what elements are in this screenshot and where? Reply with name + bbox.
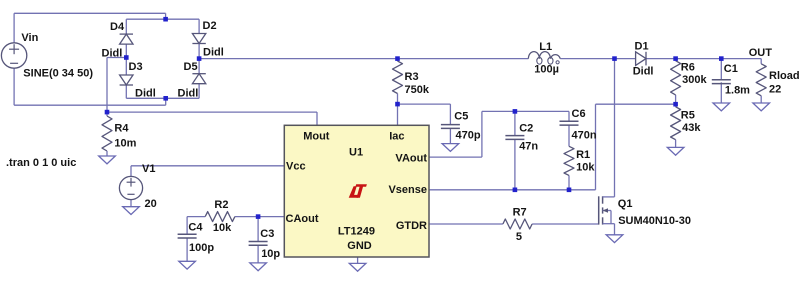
ground Rload bbox=[753, 103, 770, 111]
wire R5 leads bbox=[675, 104, 677, 107]
svg-text:43k: 43k bbox=[682, 122, 701, 134]
svg-text:D3: D3 bbox=[129, 61, 143, 73]
capacitor C6 bbox=[560, 120, 579, 122]
svg-text:C6: C6 bbox=[572, 108, 586, 120]
ground Q1 source bbox=[606, 235, 623, 243]
wire C6-R1 link bbox=[568, 125, 570, 146]
svg-text:D2: D2 bbox=[203, 20, 217, 32]
wire bridge mid-left to node bbox=[107, 57, 126, 59]
svg-text:CAout: CAout bbox=[286, 213, 319, 225]
wire D3 leads bbox=[125, 58, 127, 75]
wire C2 leads bbox=[514, 111, 516, 135]
svg-text:10k: 10k bbox=[576, 162, 595, 174]
svg-text:R3: R3 bbox=[405, 71, 419, 83]
svg-text:C4: C4 bbox=[188, 222, 203, 234]
resistor R1 bbox=[564, 146, 574, 175]
svg-text:Didl: Didl bbox=[102, 48, 123, 60]
voltage source Vin bbox=[1, 43, 26, 68]
svg-text:Mout: Mout bbox=[303, 131, 330, 143]
wire bridge top rail bbox=[126, 18, 199, 20]
capacitor C5 bbox=[441, 124, 460, 126]
ground GND pin bbox=[349, 263, 366, 271]
inductor L1 bbox=[528, 52, 539, 59]
svg-text:10k: 10k bbox=[213, 222, 232, 234]
svg-text:SINE(0 34 50): SINE(0 34 50) bbox=[23, 68, 93, 80]
svg-text:22: 22 bbox=[769, 84, 781, 96]
svg-text:GTDR: GTDR bbox=[396, 220, 427, 232]
wire Vin top to bridge bbox=[13, 13, 15, 43]
wire C3 branch bbox=[257, 217, 259, 242]
ground R5 bbox=[667, 147, 684, 155]
svg-text:R6: R6 bbox=[681, 62, 695, 74]
svg-text:LT1249: LT1249 bbox=[338, 226, 375, 238]
wire R7 to gate bbox=[532, 223, 599, 225]
svg-text:Vcc: Vcc bbox=[286, 161, 306, 173]
svg-text:20: 20 bbox=[145, 198, 157, 210]
wire Rload leads bbox=[760, 59, 762, 64]
wire bridge bottom rail bbox=[126, 97, 199, 99]
svg-text:C2: C2 bbox=[519, 123, 533, 135]
wire R3 bottom to C5 bbox=[397, 94, 399, 105]
svg-text:Rload: Rload bbox=[769, 70, 800, 82]
svg-text:100µ: 100µ bbox=[534, 64, 559, 76]
wire Vsense net bbox=[429, 189, 596, 191]
resistor R3 bbox=[393, 61, 403, 94]
svg-text:R2: R2 bbox=[214, 199, 228, 211]
diode D2 bbox=[192, 43, 205, 45]
wire D1 to OUT rail bbox=[646, 58, 761, 60]
capacitor C3 bbox=[249, 241, 268, 243]
capacitor C4 bbox=[178, 233, 197, 235]
svg-text:Didl: Didl bbox=[633, 66, 654, 78]
resistor R5 bbox=[671, 107, 681, 140]
svg-text:D1: D1 bbox=[635, 41, 649, 53]
wire R3 top lead bbox=[397, 59, 399, 61]
svg-text:C1: C1 bbox=[724, 63, 738, 75]
wire D5 leads bbox=[198, 59, 200, 74]
resistor R2 bbox=[205, 212, 235, 222]
wire rail L1 to D1 bbox=[560, 58, 635, 60]
svg-text:D5: D5 bbox=[184, 61, 198, 73]
wire main rail bbox=[199, 58, 528, 60]
wire R2 left lead bbox=[187, 216, 205, 218]
capacitor C2 bbox=[505, 135, 524, 137]
svg-text:R7: R7 bbox=[513, 207, 527, 219]
svg-text:C3: C3 bbox=[260, 228, 274, 240]
ground C3 bbox=[250, 263, 267, 271]
wire R6 leads bbox=[675, 59, 677, 61]
svg-text:D4: D4 bbox=[110, 21, 125, 33]
transistor Q1 bbox=[598, 196, 600, 224]
capacitor C1 bbox=[712, 79, 731, 81]
svg-text:R1: R1 bbox=[576, 149, 590, 161]
wire Vin bottom return bbox=[13, 68, 15, 105]
resistor R7 bbox=[503, 219, 532, 229]
wire C5 to ground bbox=[449, 128, 451, 143]
svg-text:R4: R4 bbox=[114, 123, 129, 135]
svg-text:Vsense: Vsense bbox=[388, 184, 427, 196]
wire Iac pin bbox=[397, 104, 399, 125]
wire C1 leads bbox=[720, 59, 722, 80]
svg-text:R5: R5 bbox=[681, 110, 695, 122]
svg-text:U1: U1 bbox=[349, 147, 363, 159]
svg-text:OUT: OUT bbox=[749, 47, 773, 59]
svg-text:Iac: Iac bbox=[389, 131, 404, 143]
svg-text:750k: 750k bbox=[405, 84, 430, 96]
svg-text:10p: 10p bbox=[261, 248, 280, 260]
svg-text:GND: GND bbox=[347, 240, 372, 252]
wire V1 to Vcc bbox=[130, 166, 132, 177]
wire Q1 drain riser bbox=[614, 59, 616, 197]
svg-text:VAout: VAout bbox=[395, 153, 427, 165]
wire GTDR to R7 bbox=[429, 223, 503, 225]
diode D5 bbox=[192, 73, 205, 75]
svg-text:SUM40N10-30: SUM40N10-30 bbox=[618, 215, 691, 227]
resistor R6 bbox=[671, 61, 681, 95]
wire VAout net bbox=[429, 156, 482, 158]
ground C5 bbox=[442, 144, 459, 152]
svg-text:C5: C5 bbox=[454, 111, 468, 123]
svg-text:Didl: Didl bbox=[203, 47, 224, 59]
junction dots bbox=[163, 17, 168, 22]
svg-text:300k: 300k bbox=[682, 74, 707, 86]
ground R4 bbox=[99, 156, 116, 164]
wire D4 leads bbox=[125, 19, 127, 34]
logo LT bbox=[349, 184, 367, 198]
svg-text:10m: 10m bbox=[114, 138, 136, 150]
ground C1 bbox=[713, 103, 730, 111]
wire node to Mout bbox=[107, 111, 317, 113]
diode D1 bbox=[645, 52, 647, 66]
svg-text:5: 5 bbox=[516, 231, 522, 243]
wire D2 leads bbox=[198, 19, 200, 33]
wire GND pin bbox=[357, 257, 359, 263]
svg-text:Q1: Q1 bbox=[618, 198, 633, 210]
svg-text:470p: 470p bbox=[456, 130, 481, 142]
svg-text:Didl: Didl bbox=[135, 88, 156, 100]
wire C4 branch bbox=[186, 217, 188, 235]
resistor R4 bbox=[106, 112, 108, 116]
svg-text:470n: 470n bbox=[572, 130, 597, 142]
svg-text:Didl: Didl bbox=[178, 88, 199, 100]
wire R2 right to CAout bbox=[235, 216, 284, 218]
svg-text:100p: 100p bbox=[189, 242, 214, 254]
svg-text:L1: L1 bbox=[539, 41, 552, 53]
diode D4 bbox=[120, 33, 133, 35]
svg-text:.tran 0 1 0 uic: .tran 0 1 0 uic bbox=[6, 157, 76, 169]
svg-text:47n: 47n bbox=[519, 141, 538, 153]
diode D3 bbox=[120, 84, 133, 86]
svg-text:Vin: Vin bbox=[21, 32, 38, 44]
wire V1 bottom bbox=[130, 200, 132, 207]
svg-text:V1: V1 bbox=[142, 163, 155, 175]
op-amp U1 box bbox=[284, 125, 429, 257]
ground V1 bbox=[123, 207, 140, 215]
svg-text:1.8m: 1.8m bbox=[725, 85, 750, 97]
voltage source V1 bbox=[119, 176, 142, 199]
resistor Rload bbox=[756, 64, 766, 96]
wire C6 top lead bbox=[568, 111, 570, 121]
ground C4 bbox=[179, 261, 196, 269]
